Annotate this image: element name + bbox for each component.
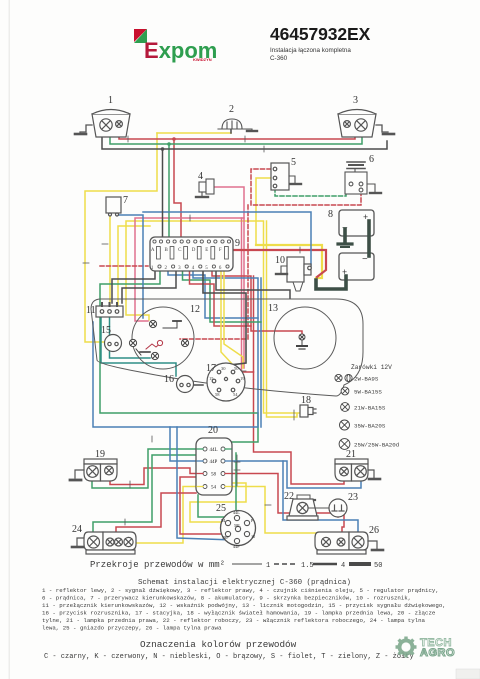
wire: black fuse fan 1 to switch 11 [112,271,155,303]
batteries 8 (akumulatory) [339,210,374,280]
wire: blue fuse cascade to trunk [168,271,258,318]
wire stubs into connector 20 pins [197,449,231,487]
ground for horn 2 [247,129,257,131]
battery series link wire [367,221,371,256]
fuse box 9 (skrzynka bezpieczników) [150,237,233,271]
work light 22 (reflektor roboczy) [287,495,318,520]
cluster bulb bottom [151,352,158,359]
svg-text:E: E [205,248,208,253]
starter button 16 (przycisk rozrusznika) [177,376,194,393]
svg-text:4: 4 [198,171,203,182]
svg-text:C-360: C-360 [270,55,288,62]
svg-text:KWIDZYN: KWIDZYN [193,57,212,62]
svg-text:16: 16 [164,374,174,385]
svg-text:50: 50 [234,366,239,371]
svg-text:15: 15 [101,325,111,336]
svg-text:Instalacja łączona kompletna: Instalacja łączona kompletna [270,47,351,54]
work light switch 23 (włącznik reflektora roboczego) [329,499,347,517]
svg-text:58: 58 [215,392,220,397]
wire: dashed green regulator 5 to generator 6 [275,185,351,196]
svg-text:30: 30 [221,366,226,371]
svg-text:18: 18 [301,395,311,406]
wire: green top bus [110,128,362,144]
svg-text:21: 21 [346,449,356,460]
WIRES PLACEHOLDER [83,127,387,543]
wire: blue flasher 7 to cluster [119,215,143,318]
svg-text:tylne, 21 - lampka przednia pr: tylne, 21 - lampka przednia prawa, 22 - … [42,617,426,624]
generator 6 (prądnica) [345,162,367,194]
brake light switch 18 (wyłącznik świateł hamowania) [300,405,316,417]
wire: green drop to fuse box [168,144,170,237]
ground for generator 6 [367,184,381,193]
wire: pink trunk to dashboard [241,218,243,374]
instrument cluster 12 (wskaźnik podwójny) [132,307,194,369]
svg-text:25W/25W-BA20d: 25W/25W-BA20d [354,442,399,449]
svg-text:1: 1 [108,95,113,106]
headlight 3 (reflektor prawy) [338,110,376,138]
ground for starter 10 [276,266,287,274]
wire: red connector row 58 left to socket 25 [180,477,226,534]
wire: red trunk to hour meter 13 [212,271,302,334]
wire: yellow fuse drop to ignition 17 [221,271,234,366]
svg-text:−: − [362,254,368,265]
wire: green connector bottom to socket 25 [198,495,234,517]
wire: red thick fuse box to starter post [233,250,326,277]
wire: yellow top bus to horn [157,132,231,134]
cluster bulb right [181,339,188,346]
svg-text:25: 25 [216,503,226,514]
junction dot red [172,137,176,141]
wire: black starter button 16 to ignition [193,384,203,386]
svg-text:2W-BA9S: 2W-BA9S [354,376,379,383]
svg-text:23: 23 [348,492,358,503]
wire: green rear lamp 24 to connector [93,452,203,536]
wire: green front lamp 19 to connector [92,449,203,488]
svg-text:D: D [192,248,196,253]
svg-text:C - czarny, K - czerwony, N -: C - czarny, K - czerwony, N - niebleski,… [44,653,414,661]
ground for lamp 19 [70,470,84,480]
wire: dashed red regulator 5 to generator 6 [251,169,361,205]
wire: red top bus [119,127,355,139]
ground for headlight 1 [75,125,92,134]
front lamp left 19 (lampka przednia lewa) [84,459,117,481]
bulb legend row 2: 5W-BA15S [341,387,349,395]
junction dot green [167,142,171,146]
svg-text:F: F [219,248,222,253]
horn button 15 (przycisk sygnału dźwiękowego) [105,335,122,352]
wire: red front lamp 19 to connector [110,468,203,485]
svg-text:17: 17 [206,363,216,374]
battery positive cable to starter [316,276,346,289]
svg-text:Schemat instalacji elektryczne: Schemat instalacji elektrycznej C-360 (p… [138,579,351,587]
svg-text:50: 50 [374,562,382,570]
wire: blue connector row 44P to front lamp 21 [225,461,361,488]
svg-text:44L: 44L [210,448,218,453]
wire: yellow regulator 5 feed [256,178,271,245]
svg-text:1 - reflektor lewy, 2 - sygnał: 1 - reflektor lewy, 2 - sygnał dźwiękowy… [42,587,439,594]
bulb legend row 4: 35W-BA20S [340,420,350,430]
cluster bulb left [129,339,136,346]
svg-text:Oznaczenia kolorów przewodów: Oznaczenia kolorów przewodów [140,639,297,650]
wire: black top bus [102,132,387,149]
wire: black drop to fuse box [162,149,164,237]
svg-text:1: 1 [266,562,270,570]
svg-text:Żarówki 12V: Żarówki 12V [351,364,392,371]
svg-text:9: 9 [235,238,240,249]
bulb legend row 1: 2W-BA9S [335,374,352,381]
svg-text:58: 58 [211,473,217,478]
svg-text:15: 15 [209,376,214,381]
wire: red drop to fuse box [174,139,181,237]
wire: teal switch 11 to starter button 16 [101,317,176,376]
wire: yellow connector 20 row 54 left to rear lamp 24 [135,487,203,544]
wire: blue to trailer socket 25 bottom [177,427,233,540]
wire: yellow into cluster bulb [126,299,149,320]
svg-text:19: 19 [95,449,105,460]
dashboard panel outline [91,299,363,396]
ground for lamp 21 [368,470,380,479]
ground for lamp 26 [368,541,383,550]
svg-text:19: 19 [240,376,245,381]
wire: yellow thick to starter post [256,245,322,278]
wire: yellow to trailer socket 25 [190,483,246,522]
wire: black stub [216,271,290,298]
svg-text:2: 2 [229,104,234,115]
ignition switch 17 (stacyjka) [207,363,245,401]
rear lamp left 24 (lampa tylna lewa) [84,532,136,554]
wire: black fuse fan 2 [122,271,176,303]
svg-text:44P: 44P [210,460,218,465]
svg-text:lewa, 25 - gniazdo przyczepy,: lewa, 25 - gniazdo przyczepy, 26 - lampa… [42,625,222,632]
wire: teal switch 11 middle pin [110,317,151,358]
wire: blue trunk down [260,278,262,427]
wire: yellow branch down to rear lamp 26 [267,221,298,417]
svg-text:54: 54 [211,486,217,491]
wire: yellow flasher 7 to switch 11 [109,216,111,306]
wire: green fuse box loop around panel to connector [100,271,258,446]
wire: blue branch to rear lamp 26 [283,461,358,536]
wire: red switch 23 drop [337,513,339,517]
wire: yellow bus under fuse box to brake switch 18 [126,221,300,413]
svg-text:11: 11 [86,305,96,316]
wire: black horn drop [230,129,232,133]
svg-text:AGRO: AGRO [420,647,455,659]
wire: red trunk to ignition 17 [242,276,254,372]
wire: green fuse cascade to trunk [183,271,262,322]
wire work light to switch [308,507,329,509]
hour meter 13 (licznik motogodzin) [274,307,336,369]
svg-text:35W-BA20S: 35W-BA20S [354,423,386,430]
Expom logo flag [134,29,147,43]
svg-text:54: 54 [233,392,238,397]
svg-text:10: 10 [251,534,255,539]
front lamp right 21 (lampka przednia prawa) [335,459,368,481]
junction dot black [161,147,165,151]
TECH AGRO watermark gear [396,637,456,660]
hour meter lamp symbol [297,334,307,349]
wire: red trunk to front lamp 21 [254,372,345,484]
svg-text:20: 20 [208,425,218,436]
headlight 1 (reflektor lewy) [92,110,130,138]
svg-text:4: 4 [341,562,345,570]
svg-text:5: 5 [291,157,296,168]
oil pressure sensor 4 (czujnik ciśnienia oleju) [196,179,214,197]
svg-text:A: A [151,248,155,253]
svg-text:3: 3 [353,95,358,106]
svg-text:12: 12 [190,304,200,315]
svg-text:8: 8 [328,209,333,220]
wire: pink trunk branch [243,218,245,368]
svg-text:5W-BA15S: 5W-BA15S [354,389,382,396]
svg-text:7: 7 [123,195,128,206]
Expom logo text [144,38,217,63]
wire: yellow connector 20 row 54 right to lamp 26 [225,487,326,539]
wire: red connector row 58 to work light switch 23 [225,474,344,541]
svg-text:10: 10 [275,255,285,266]
component list [42,587,446,632]
wire: blue to starter solenoid [143,212,311,266]
bulb legend row 5: 25W/25W-BA20d [339,439,350,450]
svg-text:24: 24 [72,524,82,535]
wire: pink oil sensor 4 to cluster 12 [135,187,244,321]
wire: red rear lamp 24 to connector [116,493,196,542]
wire: blue fuse box via left loop to connector [93,271,258,427]
trailer socket 25 (gniazdo przyczepy) [221,511,256,546]
wire: black fuse to ignition 17 [203,271,246,365]
rear connector 20 (złącze tylne) [196,438,232,495]
cluster ammeter symbol [136,340,163,355]
starter 10 (rozrusznik) [287,257,311,291]
ground for regulator 5 [289,176,301,184]
wire crossing ticks [83,136,300,526]
svg-text:22: 22 [284,491,294,502]
svg-text:Przekroje przewodów w mm²: Przekroje przewodów w mm² [90,560,225,570]
cluster indicator bulb top [149,320,181,328]
svg-text:1.5: 1.5 [301,562,314,570]
svg-text:11 - przełącznik kierunkowskaz: 11 - przełącznik kierunkowskazów, 12 - w… [42,602,446,609]
svg-text:44L: 44L [233,510,240,515]
svg-text:46457932EX: 46457932EX [270,24,371,44]
battery ground [338,229,352,247]
wire: yellow switch 11 to fuse box [118,226,150,306]
turn signal switch 11 (przełącznik kierunkowskazów) [96,303,123,317]
legend: przekroje [90,560,382,570]
wire: dashed red stub left of fuse box [100,265,148,267]
svg-text:13: 13 [268,303,278,314]
voltage regulator 5 (regulator prądnicy) [271,163,289,190]
svg-text:6 - prądnica, 7 - przerywacz k: 6 - prądnica, 7 - przerywacz kierunkowsk… [42,595,411,602]
horn 2 (sygnał dźwiękowy) [218,119,248,129]
svg-text:58L: 58L [234,523,241,528]
wire: dashed red trunk to cluster 12 [180,205,248,339]
wire: yellow fuse drop 2 to ignition 17 [224,271,243,368]
wire: green connector to trailer socket 25 [235,453,237,516]
wire: blue connector row 44P left [170,427,203,461]
ground for headlight 3 [376,125,394,134]
flasher relay 7 (przerywacz kierunkowskazów) [106,197,121,216]
wire: yellow drop from top bus to horn button 15 [85,133,157,342]
bulb legend row 3: 21W-BA15S [341,403,350,412]
svg-text:26: 26 [369,525,379,536]
svg-text:44P: 44P [233,544,240,549]
svg-text:6: 6 [369,154,374,165]
svg-text:21W-BA15S: 21W-BA15S [354,405,386,412]
page edge shading [9,0,11,679]
svg-text:16 - przycisk rozrusznika, 17: 16 - przycisk rozrusznika, 17 - stacyjka… [42,610,436,617]
wire: red fuse cascade to trunk [190,271,252,326]
ground for lamp 24 [72,538,84,547]
svg-text:58P: 58P [222,535,229,540]
rear lamp right 26 (lampa tylna prawa) [315,532,368,554]
